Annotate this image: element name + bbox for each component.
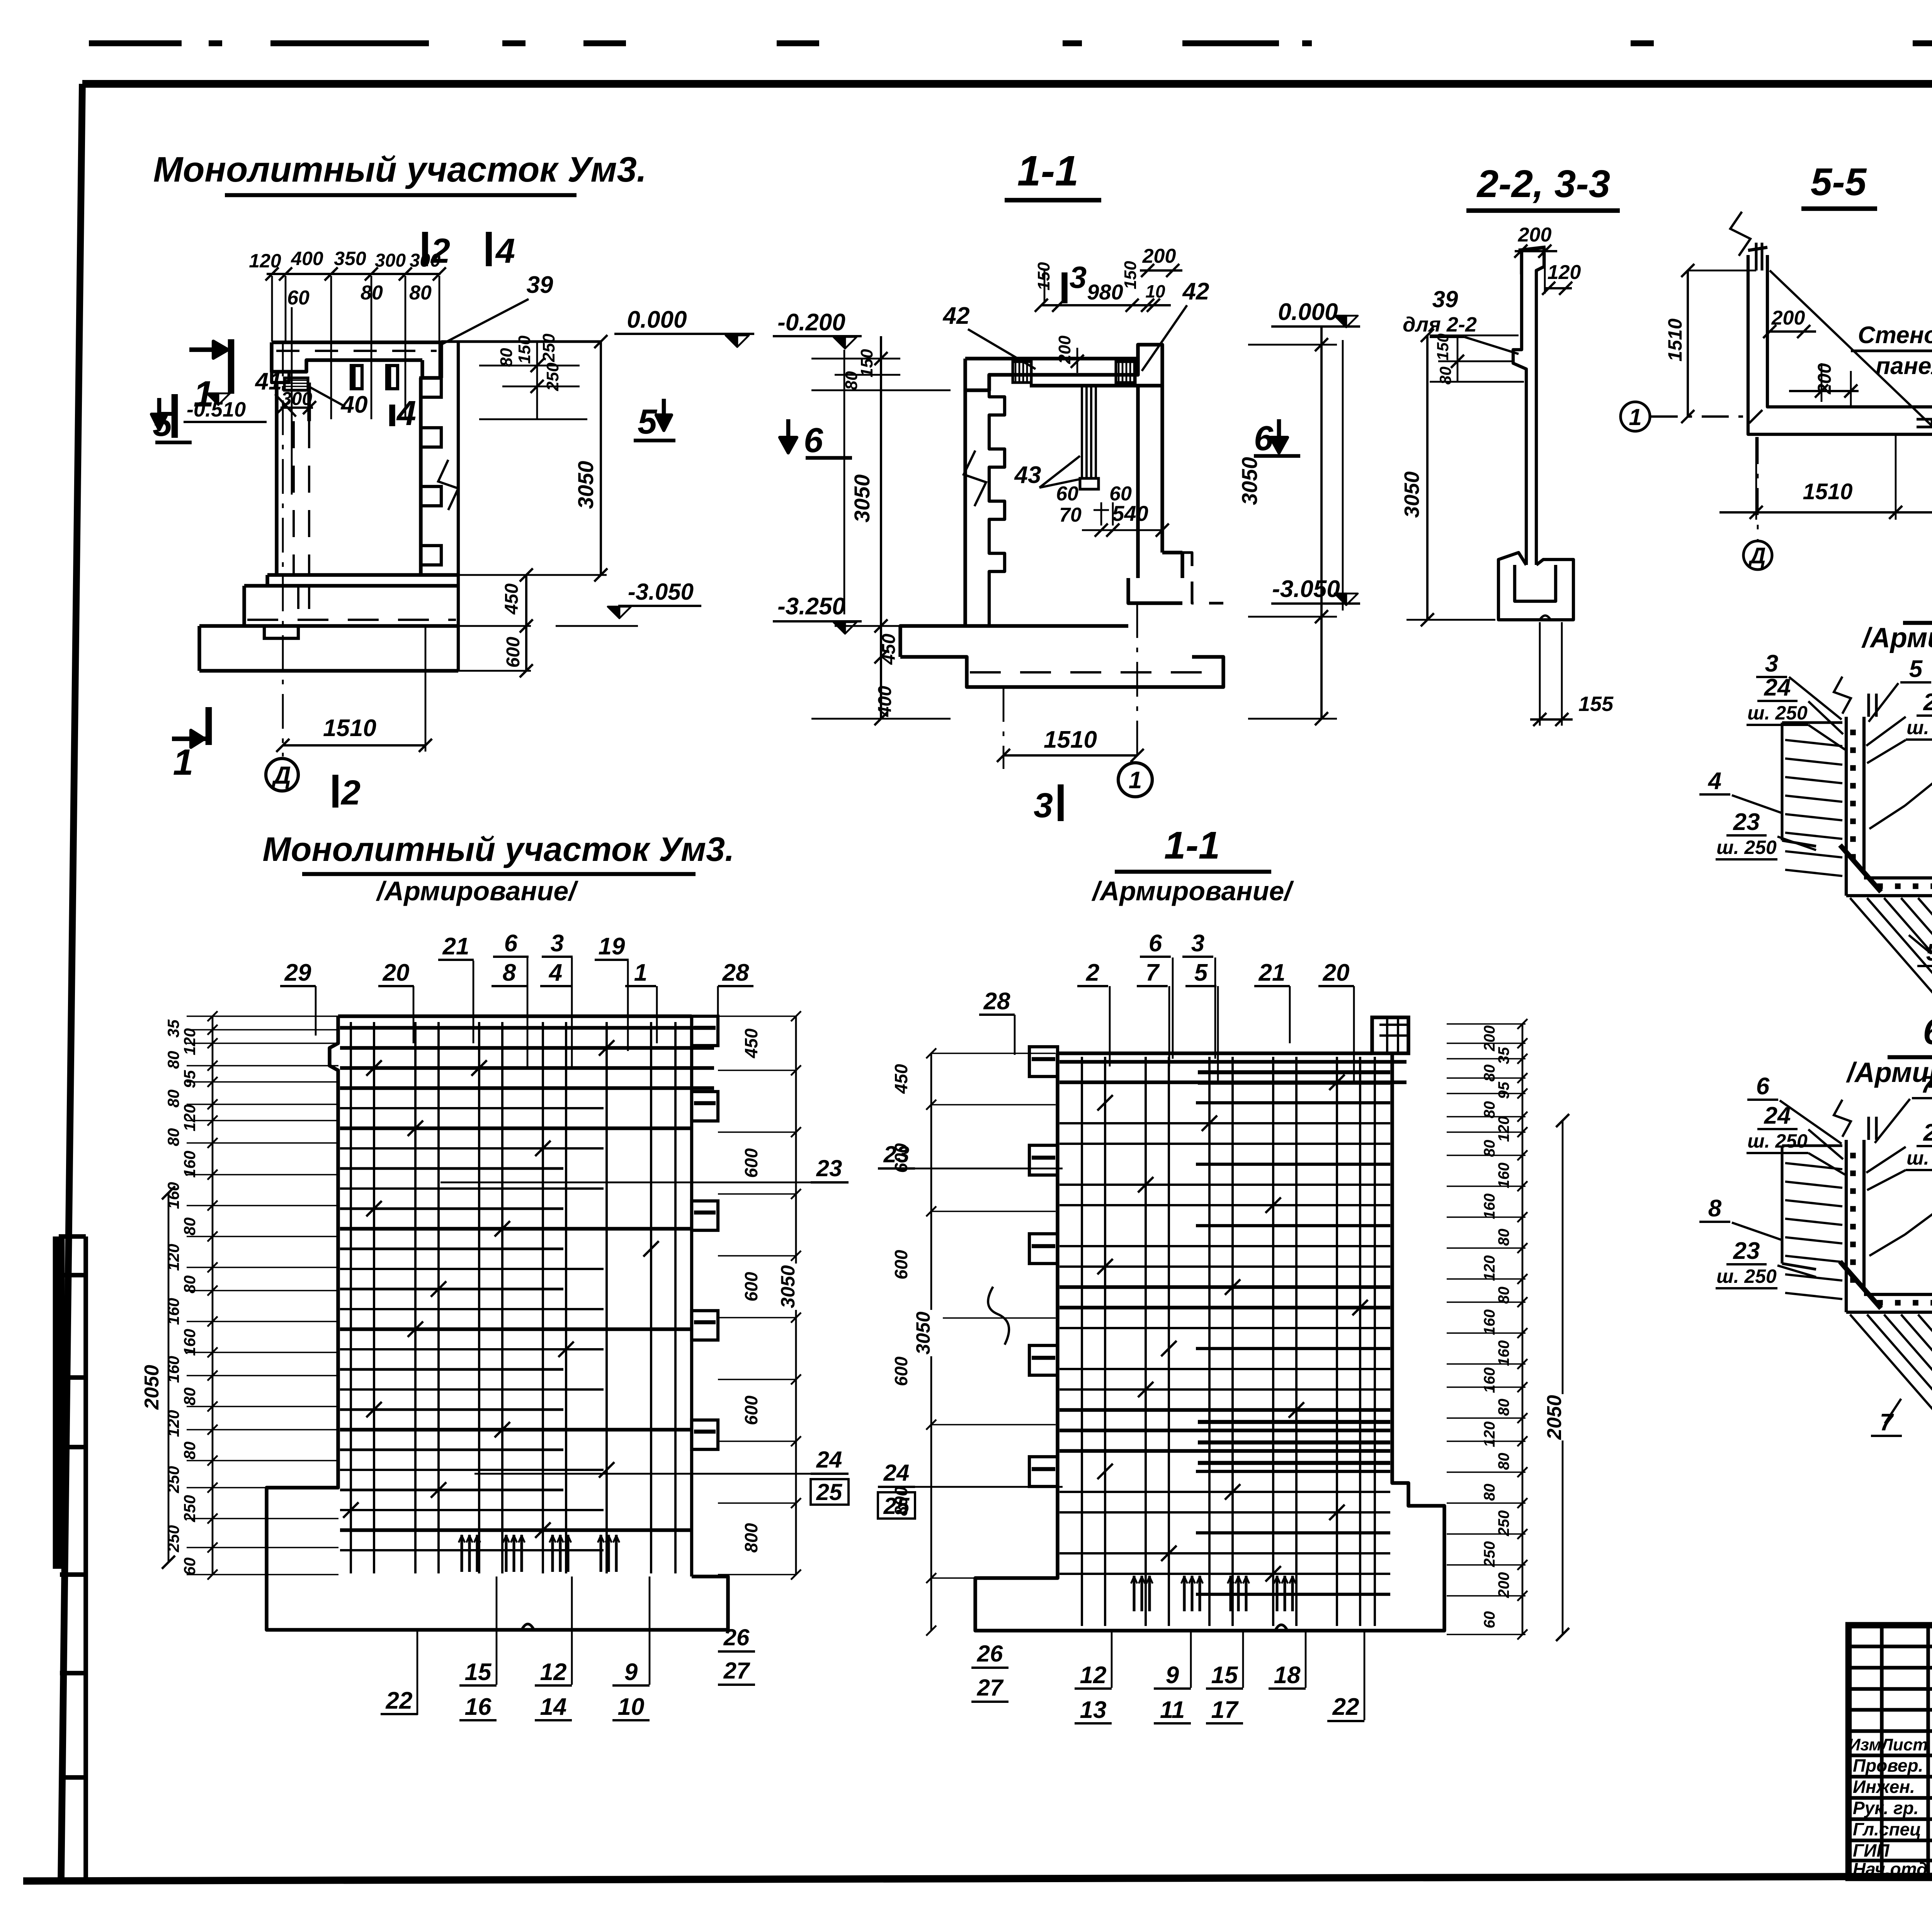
- svg-text:1510: 1510: [323, 715, 376, 742]
- svg-text:400: 400: [291, 248, 323, 269]
- svg-text:160: 160: [1481, 1194, 1498, 1219]
- svg-text:5: 5: [1194, 959, 1208, 986]
- svg-text:150: 150: [515, 335, 534, 364]
- svg-text:25: 25: [1923, 689, 1932, 716]
- svg-text:6: 6: [504, 930, 518, 957]
- svg-text:80: 80: [842, 371, 861, 390]
- svg-text:95: 95: [1495, 1082, 1512, 1099]
- svg-text:-3.250: -3.250: [777, 593, 845, 620]
- svg-text:80: 80: [497, 348, 516, 367]
- svg-text:2050: 2050: [1543, 1395, 1566, 1440]
- svg-text:35: 35: [164, 1019, 182, 1037]
- svg-text:80: 80: [180, 1276, 199, 1294]
- svg-text:600: 600: [741, 1395, 761, 1425]
- svg-text:42: 42: [1182, 278, 1209, 305]
- svg-text:1510: 1510: [1803, 479, 1852, 504]
- svg-text:21: 21: [1259, 959, 1286, 986]
- svg-text:11: 11: [1160, 1697, 1185, 1723]
- svg-text:450: 450: [502, 583, 522, 615]
- svg-text:80: 80: [1481, 1065, 1498, 1082]
- svg-text:200: 200: [1518, 224, 1552, 246]
- svg-text:3050: 3050: [1400, 471, 1423, 518]
- svg-text:22: 22: [1332, 1694, 1359, 1720]
- svg-text:250: 250: [164, 1466, 182, 1493]
- svg-text:7: 7: [1146, 959, 1160, 986]
- svg-text:24: 24: [1764, 1102, 1791, 1129]
- svg-text:1: 1: [1129, 767, 1142, 794]
- svg-text:600: 600: [741, 1272, 761, 1301]
- svg-text:80: 80: [1481, 1140, 1498, 1157]
- svg-text:24: 24: [1764, 674, 1791, 701]
- svg-text:3: 3: [1765, 650, 1778, 677]
- svg-text:6-6: 6-6: [1923, 1011, 1932, 1052]
- svg-text:160: 160: [164, 1356, 182, 1383]
- svg-text:10: 10: [1145, 281, 1165, 301]
- svg-text:1510: 1510: [1664, 318, 1686, 361]
- svg-text:6: 6: [804, 421, 823, 460]
- svg-text:21: 21: [442, 933, 469, 960]
- svg-text:4: 4: [1708, 768, 1721, 794]
- svg-text:Рук. гр.: Рук. гр.: [1853, 1798, 1919, 1818]
- svg-text:3050: 3050: [850, 474, 874, 523]
- svg-text:1: 1: [1629, 404, 1641, 430]
- svg-text:14: 14: [540, 1694, 567, 1720]
- svg-text:29: 29: [284, 959, 311, 986]
- svg-text:/Армирование/: /Армирование/: [1846, 1057, 1932, 1088]
- svg-text:120: 120: [180, 1104, 199, 1131]
- svg-text:80: 80: [409, 282, 432, 304]
- svg-text:9: 9: [1166, 1662, 1179, 1689]
- svg-text:120: 120: [164, 1244, 182, 1271]
- svg-text:ш. 250: ш. 250: [1747, 702, 1808, 724]
- svg-text:120: 120: [1481, 1255, 1498, 1281]
- svg-text:3: 3: [551, 930, 564, 957]
- svg-text:1510: 1510: [1044, 726, 1097, 753]
- svg-text:160: 160: [1481, 1367, 1498, 1393]
- svg-text:80: 80: [1495, 1287, 1512, 1304]
- svg-text:42: 42: [942, 303, 970, 329]
- svg-text:3: 3: [1070, 260, 1087, 294]
- svg-text:155: 155: [1578, 692, 1614, 716]
- svg-text:3050: 3050: [912, 1311, 934, 1354]
- svg-text:23: 23: [883, 1141, 910, 1167]
- svg-text:60: 60: [180, 1558, 199, 1576]
- svg-text:ш. 250: ш. 250: [1906, 717, 1932, 738]
- svg-text:600: 600: [891, 1250, 911, 1279]
- svg-text:3: 3: [1191, 930, 1204, 957]
- svg-text:24: 24: [816, 1447, 842, 1473]
- svg-text:26: 26: [723, 1624, 750, 1650]
- svg-text:28: 28: [722, 959, 749, 986]
- svg-text:120: 120: [249, 250, 281, 272]
- svg-text:60: 60: [1481, 1611, 1498, 1629]
- svg-text:160: 160: [164, 1298, 182, 1325]
- svg-text:27: 27: [723, 1658, 750, 1684]
- svg-text:80: 80: [1495, 1399, 1512, 1416]
- svg-text:1: 1: [634, 959, 647, 986]
- svg-text:25: 25: [883, 1493, 910, 1519]
- svg-text:540: 540: [1112, 501, 1148, 526]
- svg-text:15: 15: [465, 1659, 492, 1685]
- svg-text:/Армирование/: /Армирование/: [1091, 876, 1294, 906]
- svg-text:16: 16: [465, 1694, 492, 1720]
- svg-text:Гл.спец: Гл.спец: [1853, 1819, 1921, 1839]
- svg-text:23: 23: [1733, 809, 1760, 835]
- svg-text:2: 2: [340, 774, 361, 812]
- svg-text:600: 600: [503, 637, 524, 668]
- svg-text:160: 160: [1495, 1163, 1512, 1189]
- svg-text:7: 7: [1921, 1071, 1932, 1098]
- svg-text:-0.200: -0.200: [777, 309, 845, 336]
- svg-text:9: 9: [624, 1659, 638, 1685]
- svg-text:80: 80: [180, 1218, 199, 1236]
- svg-text:Д: Д: [1748, 543, 1766, 568]
- svg-text:ш. 250: ш. 250: [1716, 1265, 1777, 1287]
- svg-text:80: 80: [1495, 1453, 1512, 1470]
- svg-text:Лист: Лист: [1880, 1735, 1928, 1754]
- svg-text:39: 39: [1432, 286, 1458, 312]
- svg-text:80: 80: [1481, 1484, 1498, 1501]
- svg-text:120: 120: [180, 1028, 199, 1055]
- svg-text:13: 13: [1080, 1697, 1107, 1723]
- svg-text:15: 15: [1211, 1662, 1238, 1689]
- svg-text:3050: 3050: [1237, 457, 1262, 505]
- svg-text:25: 25: [1923, 1119, 1932, 1146]
- svg-text:150: 150: [1434, 333, 1452, 361]
- svg-text:2050: 2050: [141, 1365, 163, 1410]
- svg-text:10: 10: [618, 1694, 645, 1720]
- svg-text:800: 800: [741, 1523, 761, 1553]
- svg-text:4: 4: [548, 959, 562, 986]
- svg-text:19: 19: [599, 933, 625, 960]
- svg-text:8: 8: [503, 959, 516, 986]
- svg-text:120: 120: [1548, 261, 1581, 284]
- svg-text:25: 25: [816, 1479, 843, 1505]
- svg-text:3: 3: [1034, 786, 1053, 825]
- svg-text:Монолитный участок Ум3.: Монолитный участок Ум3.: [262, 830, 734, 868]
- svg-text:0.000: 0.000: [1278, 299, 1338, 325]
- svg-text:80: 80: [180, 1442, 199, 1460]
- svg-text:980: 980: [1087, 280, 1123, 304]
- svg-text:200: 200: [1142, 245, 1176, 267]
- svg-text:250: 250: [1495, 1510, 1512, 1537]
- svg-text:450: 450: [891, 1064, 911, 1094]
- svg-text:1-1: 1-1: [1017, 147, 1079, 195]
- svg-text:23: 23: [1733, 1238, 1760, 1264]
- svg-text:/Армирование/: /Армирование/: [1861, 622, 1932, 653]
- svg-text:Инжен.: Инжен.: [1853, 1777, 1915, 1797]
- svg-text:450: 450: [741, 1028, 761, 1058]
- svg-text:12: 12: [1080, 1662, 1107, 1689]
- svg-text:ш. 250: ш. 250: [1716, 837, 1777, 858]
- svg-text:27: 27: [977, 1675, 1004, 1701]
- svg-text:600: 600: [741, 1148, 761, 1178]
- svg-text:39: 39: [527, 272, 553, 298]
- svg-text:80: 80: [164, 1090, 182, 1108]
- svg-text:4: 4: [495, 232, 515, 270]
- svg-text:60: 60: [287, 287, 310, 309]
- svg-text:6: 6: [1756, 1073, 1770, 1100]
- svg-text:80: 80: [164, 1128, 182, 1146]
- svg-text:120: 120: [1481, 1422, 1498, 1447]
- svg-text:600: 600: [891, 1356, 911, 1386]
- svg-text:5: 5: [638, 403, 658, 441]
- svg-text:6: 6: [1149, 930, 1162, 957]
- svg-text:200: 200: [1055, 335, 1074, 364]
- svg-text:160: 160: [180, 1151, 199, 1178]
- svg-text:2: 2: [1086, 959, 1099, 986]
- svg-text:5-5: 5-5: [1811, 160, 1867, 204]
- svg-text:-3.050: -3.050: [628, 579, 694, 605]
- svg-text:23: 23: [816, 1155, 842, 1181]
- svg-text:70: 70: [1059, 504, 1082, 526]
- svg-text:35: 35: [1495, 1047, 1512, 1064]
- svg-text:Д: Д: [271, 761, 291, 789]
- svg-text:Провер.: Провер.: [1853, 1755, 1923, 1776]
- svg-text:ГИП: ГИП: [1853, 1840, 1889, 1861]
- svg-text:1-1: 1-1: [1164, 824, 1220, 867]
- svg-text:120: 120: [164, 1410, 182, 1437]
- svg-text:8: 8: [1708, 1195, 1722, 1222]
- svg-text:250: 250: [180, 1495, 199, 1522]
- svg-text:160: 160: [1495, 1340, 1512, 1366]
- svg-text:300: 300: [375, 250, 406, 271]
- svg-text:40: 40: [340, 391, 368, 418]
- svg-text:/Армирование/: /Армирование/: [376, 876, 578, 906]
- svg-text:120: 120: [1495, 1116, 1512, 1142]
- svg-text:60: 60: [1056, 483, 1078, 505]
- svg-text:26: 26: [977, 1641, 1003, 1667]
- svg-text:400: 400: [875, 686, 895, 717]
- svg-text:80: 80: [164, 1051, 182, 1069]
- svg-text:для 2-2: для 2-2: [1403, 313, 1477, 336]
- svg-text:17: 17: [1211, 1697, 1239, 1723]
- svg-text:3050: 3050: [777, 1265, 799, 1308]
- svg-text:20: 20: [1323, 959, 1350, 986]
- svg-text:18: 18: [1274, 1662, 1301, 1689]
- svg-text:ш. 250: ш. 250: [1906, 1147, 1932, 1169]
- svg-text:300: 300: [410, 250, 440, 271]
- svg-text:250: 250: [1481, 1541, 1498, 1568]
- svg-text:450: 450: [879, 634, 899, 665]
- svg-text:0.000: 0.000: [627, 306, 687, 333]
- svg-text:ш. 250: ш. 250: [1747, 1130, 1808, 1152]
- svg-text:43: 43: [1014, 462, 1041, 488]
- svg-text:5: 5: [1909, 656, 1923, 682]
- svg-text:160: 160: [180, 1329, 199, 1356]
- svg-text:200: 200: [1495, 1572, 1512, 1599]
- svg-text:Изм: Изм: [1848, 1735, 1881, 1754]
- svg-text:250: 250: [164, 1525, 182, 1553]
- svg-text:-3.050: -3.050: [1272, 576, 1340, 602]
- svg-text:80: 80: [1481, 1101, 1498, 1119]
- svg-text:2-2, 3-3: 2-2, 3-3: [1476, 162, 1611, 206]
- svg-text:80: 80: [180, 1388, 199, 1406]
- svg-text:28: 28: [983, 988, 1010, 1015]
- svg-text:6: 6: [1254, 419, 1274, 458]
- svg-text:150: 150: [1121, 261, 1140, 289]
- svg-text:Стеновые: Стеновые: [1858, 322, 1932, 349]
- svg-text:160: 160: [1481, 1310, 1498, 1335]
- svg-text:95: 95: [180, 1070, 199, 1088]
- svg-text:22: 22: [386, 1687, 413, 1714]
- svg-text:250: 250: [539, 333, 558, 362]
- svg-text:20: 20: [383, 959, 410, 986]
- svg-text:200: 200: [1815, 363, 1835, 395]
- svg-text:панели: панели: [1876, 353, 1932, 379]
- svg-text:Монолитный участок Ум3.: Монолитный участок Ум3.: [153, 150, 647, 189]
- svg-text:12: 12: [540, 1659, 567, 1685]
- svg-text:1: 1: [173, 742, 194, 783]
- svg-text:3050: 3050: [573, 461, 598, 509]
- svg-text:350: 350: [334, 248, 366, 269]
- svg-text:24: 24: [883, 1460, 910, 1486]
- svg-text:Нач.отд: Нач.отд: [1853, 1859, 1927, 1879]
- svg-text:80: 80: [1495, 1229, 1512, 1246]
- svg-text:5: 5: [153, 405, 173, 444]
